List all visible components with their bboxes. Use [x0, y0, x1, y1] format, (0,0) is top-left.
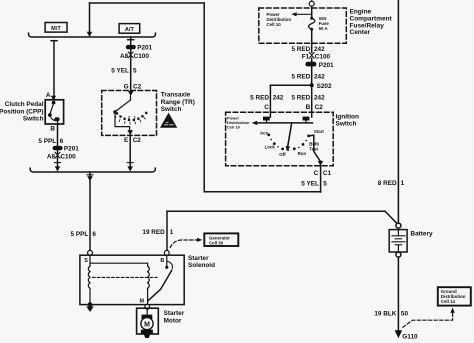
- svg-text:Cell 10: Cell 10: [227, 125, 241, 130]
- A/T option box: [119, 24, 140, 34]
- svg-text:242: 242: [314, 46, 325, 53]
- svg-text:M/T: M/T: [51, 26, 61, 32]
- fuse value label IGN Fuse 50 A: [319, 16, 330, 31]
- switch TR internals: [115, 96, 131, 131]
- svg-text:5 PPL: 5 PPL: [38, 138, 56, 145]
- svg-text:8 RED: 8 RED: [378, 180, 397, 187]
- wire ignition C1 down: [320, 166, 322, 192]
- engine compartment fuse/relay center label: [350, 9, 393, 37]
- wire M/T branch down to CPP switch: [51, 41, 57, 100]
- motor base block: [141, 330, 153, 334]
- svg-text:Motor: Motor: [164, 317, 182, 324]
- wire fuse output down: [311, 29, 313, 52]
- wire 5 YEL loop: horizontal segment y=192 to ignition C1: [204, 191, 320, 193]
- svg-text:S: S: [84, 258, 88, 264]
- terminal block B3: [303, 117, 310, 121]
- arrowhead on CPP arm: [53, 117, 58, 121]
- svg-text:Cell 10: Cell 10: [267, 22, 282, 27]
- svg-text:5 RED: 5 RED: [291, 73, 310, 80]
- solenoid coil ground diamond: [87, 301, 93, 308]
- svg-text:A8: A8: [47, 154, 56, 161]
- battery plates symbol: [392, 230, 405, 252]
- solenoid plunger dashed link: [93, 276, 158, 278]
- svg-text:C1: C1: [323, 170, 332, 177]
- svg-text:C100: C100: [315, 54, 331, 61]
- arrow to power distribution: [296, 13, 312, 15]
- svg-text:M: M: [140, 299, 145, 305]
- svg-text:Run: Run: [298, 151, 307, 156]
- svg-text:M: M: [144, 321, 150, 328]
- ignition position labels: [260, 129, 324, 157]
- svg-text:Ignition: Ignition: [336, 114, 359, 121]
- svg-text:Switch: Switch: [336, 121, 357, 128]
- ground G110 symbol: [395, 330, 403, 338]
- svg-text:A/T: A/T: [125, 27, 135, 33]
- svg-text:Position (CPP): Position (CPP): [0, 108, 44, 115]
- svg-text:P201: P201: [319, 62, 334, 69]
- switch TR pivot dot: [113, 110, 117, 114]
- svg-text:A8: A8: [120, 53, 129, 60]
- svg-text:1: 1: [134, 114, 137, 119]
- svg-text:5 YEL: 5 YEL: [301, 181, 319, 188]
- wire 8 RED from top to battery: [397, 0, 399, 223]
- solenoid hold-in coil (left): [88, 255, 90, 303]
- power distribution cell 10 label (ignition): [227, 116, 250, 130]
- svg-text:6: 6: [92, 231, 96, 238]
- svg-text:5 PPL: 5 PPL: [71, 231, 89, 238]
- switch CPP box: [45, 100, 63, 124]
- switch TR contact arc dots: [116, 112, 148, 121]
- switch CPP contacts and arm: [49, 101, 59, 124]
- svg-text:50: 50: [401, 310, 409, 317]
- svg-text:Cell 14: Cell 14: [441, 299, 456, 304]
- svg-text:F1: F1: [302, 54, 310, 61]
- svg-text:S202: S202: [317, 83, 332, 90]
- svg-text:Battery: Battery: [411, 230, 433, 237]
- svg-text:C2: C2: [315, 104, 324, 111]
- svg-text:2: 2: [128, 114, 131, 119]
- wire between connectors: [311, 58, 313, 85]
- dashed reference arrow to generator cell: [170, 240, 197, 248]
- svg-text:Off: Off: [279, 152, 286, 157]
- svg-text:B: B: [50, 125, 55, 132]
- node battery negative terminal: [396, 252, 401, 257]
- wire splice down to ignition B: [311, 85, 313, 117]
- svg-text:1: 1: [170, 229, 174, 236]
- ignition internal bus with arrow to power distribution: [257, 122, 313, 124]
- M/T option box: [45, 23, 67, 33]
- node battery feed terminal circle: [311, 0, 313, 1]
- svg-text:50 A: 50 A: [319, 26, 329, 31]
- connector A8 C100 symbol (A/T): [128, 52, 133, 58]
- wire bus down to starter solenoid S: [89, 172, 91, 251]
- solenoid moving contact arm: [168, 262, 173, 269]
- connector P201 (fuse feed): [305, 62, 316, 67]
- arrow into TR switch: [128, 91, 134, 96]
- wire splice branch left: [270, 84, 311, 86]
- svg-text:B: B: [306, 104, 311, 111]
- clutch pedal position switch label: [0, 101, 44, 122]
- svg-text:B: B: [160, 258, 164, 264]
- svg-text:G110: G110: [402, 333, 418, 340]
- fuse box: engine compartment fuse/relay center dashed box: [259, 8, 347, 43]
- terminal block B2: [263, 117, 270, 121]
- svg-text:Transaxle: Transaxle: [161, 92, 191, 99]
- svg-text:5: 5: [323, 181, 327, 188]
- svg-text:Starter: Starter: [164, 310, 185, 317]
- svg-text:A: A: [46, 92, 51, 99]
- wire 5 YEL loop: horizontal top segment: [90, 2, 205, 4]
- junction serif + arrow into lower bus (left): [55, 162, 61, 164]
- svg-text:C100: C100: [60, 154, 76, 161]
- switch TR position ticks: [115, 117, 145, 125]
- connector A8 C100 symbol: [55, 152, 60, 158]
- warning triangle symbol: [160, 113, 177, 128]
- arrow ignition exit: [318, 161, 324, 166]
- svg-text:Acc: Acc: [260, 130, 269, 135]
- wire 19 RED battery to solenoid B: [167, 211, 398, 250]
- motor terminal block: [146, 309, 148, 315]
- svg-text:P201: P201: [64, 146, 79, 153]
- top option bus: [28, 33, 155, 37]
- svg-text:C100: C100: [134, 53, 150, 60]
- wire A/T branch from bus: [128, 37, 134, 46]
- svg-text:5 RED: 5 RED: [250, 94, 269, 101]
- svg-text:Clutch Pedal: Clutch Pedal: [5, 101, 44, 108]
- node battery positive terminal: [396, 223, 401, 228]
- svg-text:5 RED: 5 RED: [291, 94, 310, 101]
- reference box: ground distribution cell 14: [438, 287, 471, 305]
- battery box: [389, 230, 407, 252]
- ignition wiper arm: [288, 123, 292, 147]
- junction serif + arrow into lower bus (right): [127, 162, 133, 164]
- svg-text:Solenoid: Solenoid: [188, 262, 215, 269]
- svg-text:Switch: Switch: [161, 106, 182, 113]
- node solenoid B terminal: [164, 250, 169, 255]
- connector P201 (left): [53, 146, 63, 150]
- ground marker below solenoid: [86, 306, 93, 312]
- svg-text:Lock: Lock: [265, 145, 276, 150]
- svg-text:G: G: [124, 83, 129, 90]
- wire from terminal into fuse: [311, 6, 313, 17]
- wire 19 BLK battery to ground: [397, 257, 399, 330]
- svg-text:19 RED: 19 RED: [142, 229, 165, 236]
- svg-text:P201: P201: [137, 45, 152, 52]
- svg-text:242: 242: [314, 73, 325, 80]
- svg-text:E: E: [124, 137, 129, 144]
- svg-text:Starter: Starter: [188, 255, 209, 262]
- wire below P201: [57, 150, 59, 168]
- solenoid pull-in winding branch: [90, 263, 149, 304]
- svg-text:5 YEL: 5 YEL: [111, 67, 129, 74]
- wire 5 YEL loop: vertical segment x=204: [203, 3, 205, 192]
- lower merge bus: [30, 168, 155, 172]
- wire below P201 A/T: [130, 49, 132, 90]
- connector P201 (A/T): [126, 45, 136, 49]
- svg-text:Start: Start: [314, 129, 325, 134]
- solenoid contact stub from B: [166, 255, 168, 266]
- node solenoid S terminal: [88, 250, 93, 255]
- wire TR E down to bus: [129, 135, 131, 168]
- wire CPP B down: [57, 124, 59, 146]
- svg-text:6: 6: [60, 138, 64, 145]
- fuse IGN 50A symbol: [310, 17, 313, 20]
- svg-text:C2: C2: [133, 83, 142, 90]
- svg-text:5: 5: [133, 67, 137, 74]
- svg-text:Switch: Switch: [23, 116, 44, 123]
- power distribution cell 10 label (fuse box): [267, 12, 292, 27]
- arrow TR exit: [127, 130, 133, 135]
- relay starter solenoid box: [80, 255, 184, 304]
- dashed reference arrow to ground distribution cell: [403, 313, 453, 328]
- svg-text:5 RED: 5 RED: [291, 46, 310, 53]
- svg-text:19 BLK: 19 BLK: [374, 310, 396, 317]
- svg-text:Range (TR): Range (TR): [161, 99, 195, 106]
- motor armature circle with M: [141, 318, 153, 330]
- svg-text:242: 242: [273, 94, 284, 101]
- svg-text:Cell 30: Cell 30: [209, 240, 224, 245]
- wire start contact to C1 exit: [309, 135, 321, 161]
- reference box: generator cell 30: [204, 233, 238, 246]
- connector F1 C100 symbol: [309, 53, 314, 59]
- svg-text:C: C: [314, 170, 319, 177]
- wire feed from top into M/T-A/T bus: [89, 3, 91, 34]
- motor ground stub: [144, 334, 150, 338]
- junction serif + arrow out of lower bus: [87, 174, 93, 176]
- switch ignition dashed box: [226, 112, 334, 165]
- svg-text:1: 1: [401, 180, 405, 187]
- svg-text:242: 242: [314, 94, 325, 101]
- svg-text:C2: C2: [133, 137, 142, 144]
- motor starter motor box: [137, 308, 159, 334]
- svg-text:Center: Center: [350, 29, 371, 36]
- transaxle range switch label: [161, 92, 195, 113]
- svg-text:C: C: [264, 104, 269, 111]
- splice S202: [310, 83, 314, 87]
- ignition position contacts: [267, 133, 310, 151]
- switch TR dashed box: [102, 91, 157, 136]
- ignition switch label: [336, 114, 359, 128]
- arrow into top bus at x=89.5: [87, 32, 93, 37]
